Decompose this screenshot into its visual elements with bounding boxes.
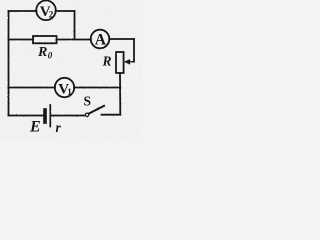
- svg-text:r: r: [56, 120, 62, 135]
- wire V1 row left: [9, 87, 56, 89]
- svg-text:0: 0: [48, 51, 53, 61]
- wire bottom left: [9, 115, 44, 117]
- label R0: [37, 45, 53, 61]
- wire top left (corner to V2): [9, 10, 37, 12]
- voltmeter V2: [36, 1, 56, 21]
- battery negative plate (short thick): [43, 110, 47, 122]
- switch blade: [89, 106, 104, 114]
- svg-text:E: E: [29, 119, 41, 136]
- wire right vertical to wiper: [133, 39, 135, 62]
- wire battery to switch pivot: [52, 115, 86, 117]
- rheostat R: [116, 52, 124, 73]
- wiper arrow shaft: [129, 61, 135, 63]
- label V1: [58, 81, 72, 97]
- svg-text:R: R: [102, 54, 112, 69]
- wire ammeter to right corner: [109, 38, 134, 40]
- scan noise background: [0, 0, 142, 139]
- wire below R down to bottom corner: [119, 73, 121, 115]
- resistor R0: [33, 36, 57, 43]
- battery positive plate (long thin): [49, 105, 51, 127]
- label V2: [40, 4, 54, 20]
- wire left vertical: [8, 11, 10, 116]
- wiper arrowhead: [124, 59, 130, 64]
- voltmeter V1: [55, 78, 74, 97]
- wire vertical from top corner down to R0 row: [74, 11, 76, 40]
- svg-text:1: 1: [67, 87, 72, 97]
- switch pivot: [85, 113, 88, 116]
- wire V2 to corner: [56, 10, 75, 12]
- svg-text:2: 2: [49, 10, 54, 20]
- wire V1 to right vertical: [74, 87, 120, 89]
- svg-text:R: R: [37, 45, 47, 60]
- switch fixed contact wire: [102, 114, 121, 116]
- wire R0 row left: [9, 39, 34, 41]
- svg-text:S: S: [84, 93, 92, 108]
- wire R0 to ammeter: [57, 39, 91, 41]
- svg-text:A: A: [95, 32, 107, 49]
- ammeter A: [91, 30, 110, 49]
